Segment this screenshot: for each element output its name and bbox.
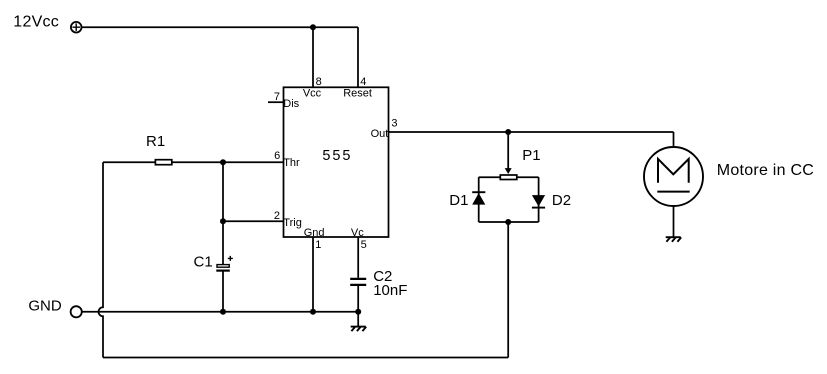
ground symbol under motor (666, 237, 682, 242)
capacitor C1 (electrolytic) (216, 256, 233, 271)
P1 wiper arrow (505, 168, 512, 174)
svg-text:Thr: Thr (283, 157, 300, 169)
svg-text:3: 3 (391, 117, 397, 129)
svg-text:R1: R1 (146, 133, 165, 150)
motor M glyph (657, 159, 689, 192)
wire pin 1 to GND rail (312, 237, 314, 312)
wire pin 8 to Vcc rail (312, 27, 314, 87)
capacitor C2 (350, 279, 366, 285)
potentiometer P1 body (500, 175, 517, 180)
svg-text:Reset: Reset (343, 88, 372, 100)
wire diode block bottom edge (479, 221, 539, 223)
junction Out / P1 wiper (505, 129, 511, 135)
svg-text:2: 2 (274, 210, 280, 222)
ground terminal circle (71, 306, 82, 317)
junction GND / pin 1 (310, 309, 316, 315)
junction GND / C1 (220, 309, 226, 315)
wire GND rail (82, 311, 358, 313)
wire Trig horizontal to pin 2 (223, 220, 284, 222)
junction GND / C2 (355, 309, 361, 315)
svg-text:Motore in CC: Motore in CC (717, 162, 814, 179)
wire top rail 12Vcc (82, 26, 359, 28)
wire motor feed drop (673, 132, 675, 147)
wire left vertical with hop over GND rail (99, 162, 104, 357)
svg-text:D2: D2 (552, 192, 571, 209)
wire C2 to GND rail (357, 286, 359, 312)
wire diode block top edge (479, 176, 539, 178)
svg-text:6: 6 (274, 150, 280, 162)
junction top rail / pin 8 (310, 24, 316, 30)
svg-text:Dis: Dis (283, 98, 299, 110)
svg-text:7: 7 (274, 91, 280, 103)
svg-text:P1: P1 (522, 147, 540, 164)
junction block bottom / return wire (505, 219, 511, 225)
power terminal P+ (12Vcc) (71, 22, 82, 33)
svg-text:Gnd: Gnd (304, 227, 325, 239)
pin 7 stub (Dis) (268, 101, 284, 103)
svg-text:4: 4 (360, 76, 366, 88)
svg-text:Vcc: Vcc (303, 88, 322, 100)
svg-text:Out: Out (371, 128, 389, 140)
svg-text:1: 1 (315, 239, 321, 251)
wire Out net horizontal (389, 131, 674, 133)
svg-text:8: 8 (316, 76, 322, 88)
wire left branch (D1) vertical (478, 177, 480, 222)
svg-text:GND: GND (28, 297, 62, 314)
IC U1 555 body (284, 87, 389, 237)
svg-text:D1: D1 (449, 192, 468, 209)
junction Trig (220, 218, 226, 224)
diode D1 (pointing up) (472, 192, 485, 204)
motor M1 circle (644, 147, 703, 206)
junction Thr / C1 branch (220, 159, 226, 165)
wire pin 5 to C2 (357, 237, 359, 278)
svg-text:12Vcc: 12Vcc (13, 13, 59, 30)
wire return vertical from diode block (507, 222, 509, 358)
wire bottom return rail (103, 357, 508, 359)
svg-text:C1: C1 (194, 254, 213, 271)
wire motor to ground (673, 206, 675, 237)
svg-text:555: 555 (322, 148, 352, 164)
svg-text:Trig: Trig (283, 217, 302, 229)
wire P1 wiper drop (507, 132, 509, 169)
wire C1 branch vertical (Thr to Trig to C1) (222, 162, 224, 311)
svg-text:5: 5 (361, 239, 367, 251)
resistor R1 body (155, 160, 171, 165)
diode D2 (pointing down) (532, 195, 545, 208)
ground symbol under C2 (351, 312, 367, 331)
wire Thr net (R1 row) (103, 161, 284, 163)
wire pin 4 to Vcc rail (357, 27, 359, 87)
wire right branch (D2) vertical (538, 177, 540, 222)
svg-text:10nF: 10nF (373, 282, 407, 299)
